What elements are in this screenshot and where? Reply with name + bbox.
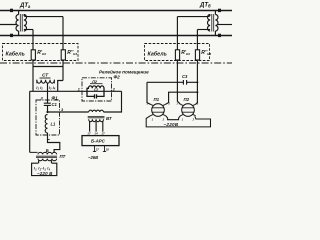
capacitor C2 bottom branch	[87, 91, 104, 98]
wire riser x33 upper	[32, 30, 34, 51]
impedance bond DTa secondary winding	[24, 15, 27, 32]
wire jog x63 to x57.7	[58, 81, 63, 92]
svg-text:ДТа: ДТа	[19, 3, 31, 9]
core ST	[40, 77, 51, 79]
svg-text:~220 В: ~220 В	[37, 171, 53, 176]
wire left column x29.7 down to PT	[29, 91, 31, 152]
boundary dash-dot line (relay room)	[0, 62, 232, 64]
svg-text:П2: П2	[184, 97, 190, 102]
svg-text:Релейное помещение: Релейное помещение	[99, 69, 149, 75]
wire DTa main to rail1	[18, 11, 20, 15]
transformer VT primary winding on wire	[89, 110, 104, 112]
filter F1 box	[36, 100, 60, 135]
svg-text:П1: П1	[154, 97, 160, 102]
svg-text:I1 I2: I1 I2	[36, 85, 43, 91]
wire PT secondary leads	[39, 161, 52, 164]
wire F2 through line	[87, 90, 122, 92]
terminal box PT	[32, 163, 57, 175]
impedance bond DTb secondary winding	[208, 15, 211, 32]
insulated joint right on rail 1	[218, 9, 221, 12]
wire cable1 riser to P2 TL	[177, 63, 180, 104]
tick terminal	[48, 139, 50, 141]
resistor R'iz right1	[175, 50, 179, 60]
resistor R''iz right2	[195, 50, 199, 60]
filter F2 box	[82, 78, 112, 101]
wire DTa main to rail2	[18, 31, 20, 36]
impedance bond DTb main winding	[215, 15, 218, 32]
wire riser x197 upper	[196, 30, 198, 64]
wire cable2 riser to P2 TR	[196, 63, 198, 104]
svg-text:Кабель: Кабель	[148, 51, 167, 58]
capacitor C3	[183, 80, 186, 85]
wire DTa secondary bottom to cable	[24, 29, 33, 31]
svg-text:Кабель: Кабель	[6, 51, 25, 58]
core VT	[88, 116, 105, 117]
impedance bond DTa main winding	[16, 15, 19, 32]
rail 2 (bottom rail)	[0, 35, 232, 37]
svg-text:С3: С3	[182, 74, 188, 79]
insulated joint left on rail 2	[10, 34, 13, 37]
relay P1	[150, 104, 165, 117]
wire riser x63 upper	[62, 17, 64, 50]
wire VT secondary leads	[90, 121, 103, 132]
svg-text:17: 17	[101, 131, 105, 135]
svg-text:Б-АРС: Б-АРС	[91, 139, 106, 144]
wire output bar y91	[30, 90, 87, 92]
wire center-tap lead right	[217, 24, 232, 26]
wire F1 output right	[48, 111, 89, 113]
svg-text:Б: Б	[46, 148, 49, 153]
relay P2	[180, 104, 195, 117]
inductor L2 top branch	[87, 86, 104, 91]
insulated joint left on rail 1	[10, 9, 13, 12]
wire riser x63 lower	[62, 60, 64, 81]
relay terminal digits P1	[146, 102, 170, 122]
wire local mid bar	[166, 116, 181, 120]
core DTb	[212, 14, 214, 32]
junction C3-right	[196, 81, 198, 83]
resistor R'iz left1	[31, 50, 35, 60]
wire ST center tap down	[47, 83, 49, 100]
svg-text:ПТ: ПТ	[60, 154, 66, 159]
wire local supply bottom bar	[146, 116, 210, 127]
wire DTa secondary top to cable	[24, 15, 63, 17]
svg-text:14: 14	[94, 131, 98, 135]
svg-text:СТ: СТ	[42, 73, 49, 79]
wire DTb secondary bottom to cable	[197, 29, 210, 31]
transformer ST secondary winding	[37, 80, 55, 83]
transformer ST top bar	[33, 66, 63, 68]
wire stubs below block	[93, 146, 106, 152]
inductor L1	[45, 115, 47, 133]
wire DTb main to rail2	[214, 31, 216, 36]
wire DTb secondary top to cable	[177, 15, 210, 17]
svg-text:1: 1	[78, 87, 80, 91]
wire VT to F2 riser	[104, 91, 122, 112]
junction node F1	[46, 111, 48, 113]
block B-ARS box	[82, 136, 119, 146]
transformer PT primary winding	[30, 152, 57, 154]
cable box left (dashed)	[3, 44, 79, 61]
resistor R''iz left2	[61, 50, 65, 60]
rail 1 (top rail)	[0, 10, 232, 12]
wire center-tap lead left	[0, 24, 17, 26]
underline L2	[90, 83, 103, 85]
tap ticks ST	[37, 80, 55, 84]
svg-text:I3 I4: I3 I4	[49, 85, 56, 91]
wire P1 TR riser and bar	[166, 92, 198, 104]
svg-text:ДТб: ДТб	[199, 3, 211, 9]
svg-text:~220В: ~220В	[164, 122, 179, 127]
wire DTb main to rail1	[214, 11, 216, 15]
core DTa	[20, 14, 22, 32]
wire F1 bottom exit	[48, 133, 60, 153]
wire riser C3 left to P1	[147, 82, 150, 104]
svg-text:~26В: ~26В	[88, 155, 98, 160]
wire riser x33 lower to ST	[32, 60, 34, 91]
svg-text:С1: С1	[52, 102, 58, 107]
core PT	[36, 156, 57, 157]
cable box right (dashed)	[145, 44, 210, 61]
svg-text:Ф2: Ф2	[114, 75, 121, 80]
svg-text:17: 17	[96, 147, 100, 151]
transformer PT secondary winding	[38, 159, 57, 161]
svg-text:Л2: Л2	[91, 79, 98, 84]
svg-text:L1: L1	[51, 122, 57, 127]
capacitor C1	[44, 100, 51, 112]
transformer VT secondary winding	[89, 119, 104, 121]
wire riser x177 upper	[176, 17, 178, 63]
svg-text:17: 17	[87, 131, 91, 135]
svg-text:18: 18	[106, 147, 110, 151]
relay terminal digits P2	[176, 102, 198, 122]
svg-text:Ф1: Ф1	[52, 95, 59, 100]
wire C3 line	[147, 81, 197, 83]
svg-text:С2: С2	[94, 88, 98, 92]
junction bar-right	[196, 91, 198, 93]
insulated joint right on rail 2	[218, 34, 221, 37]
svg-text:ВТ: ВТ	[106, 116, 112, 121]
